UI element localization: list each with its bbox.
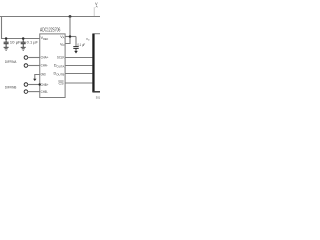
- capacitor C1 10uF: [4, 39, 9, 48]
- input terminal circle B-: [24, 90, 28, 94]
- wire rail drop to VREF line: [2, 17, 40, 39]
- IC U2 controller block: [92, 34, 100, 92]
- svg-text:SCLK: SCLK: [57, 56, 65, 60]
- wire B+ to CHB+: [28, 84, 40, 86]
- svg-text:CHA-: CHA-: [41, 64, 49, 68]
- node VA supply rail: [0, 16, 100, 18]
- ground GND3 arrow: [33, 79, 36, 81]
- svg-text:CHA+: CHA+: [41, 56, 49, 60]
- node junction C1: [5, 37, 8, 40]
- node junction VA branch: [69, 35, 72, 38]
- wire A- to CHA-: [28, 65, 40, 67]
- wire SCLK: [65, 57, 92, 59]
- svg-text:CHB+: CHB+: [41, 83, 49, 87]
- ground GND4 arrow: [74, 51, 78, 54]
- svg-text:VD: VD: [86, 37, 90, 42]
- ground GND2: [21, 47, 26, 50]
- svg-text:CHB-: CHB-: [41, 90, 49, 94]
- svg-text:A: A: [96, 4, 98, 8]
- wire CS: [65, 82, 92, 84]
- svg-text:0.1 µF: 0.1 µF: [27, 41, 39, 45]
- IC U1 ADC122S706 box: [40, 34, 65, 98]
- svg-text:0.1 µF: 0.1 µF: [77, 43, 85, 47]
- svg-text:10 µF: 10 µF: [10, 41, 22, 45]
- input terminal circle A+: [24, 56, 28, 60]
- node VA label: [94, 1, 98, 16]
- input terminal circle A-: [24, 64, 28, 68]
- capacitor C2 0.1uF: [21, 39, 26, 48]
- node junction C2: [22, 37, 25, 40]
- node junction CHB+ pin: [39, 83, 41, 85]
- svg-text:VREF: VREF: [41, 36, 49, 41]
- wire VA pin branch: [65, 36, 76, 38]
- input terminal circle B+: [24, 83, 28, 87]
- wire GND pin: [35, 75, 40, 80]
- svg-text:DOUTA: DOUTA: [54, 64, 65, 69]
- svg-text:DIFFINA: DIFFINA: [5, 60, 17, 64]
- capacitor C3 0.1uF: [73, 47, 78, 51]
- svg-text:ADC122S706: ADC122S706: [40, 28, 60, 34]
- wire DOUTA: [65, 65, 92, 67]
- wire DOUTB: [65, 73, 92, 75]
- pin label CS with overline: [58, 81, 64, 85]
- wire rail to VD pin: [65, 17, 70, 44]
- svg-text:DIFFINB: DIFFINB: [5, 86, 17, 90]
- wire A+ to CHA+: [28, 57, 40, 59]
- svg-text:301: 301: [96, 95, 100, 99]
- ground GND1: [4, 47, 9, 50]
- svg-text:VD: VD: [60, 43, 64, 48]
- svg-text:DOUTB: DOUTB: [54, 72, 65, 77]
- wire B- to CHB-: [28, 91, 40, 93]
- node junction rail x70: [69, 15, 72, 18]
- svg-text:CS: CS: [58, 81, 64, 85]
- svg-text:VA: VA: [60, 35, 64, 40]
- svg-text:GND: GND: [41, 73, 46, 77]
- wire branch down to C3: [75, 37, 77, 47]
